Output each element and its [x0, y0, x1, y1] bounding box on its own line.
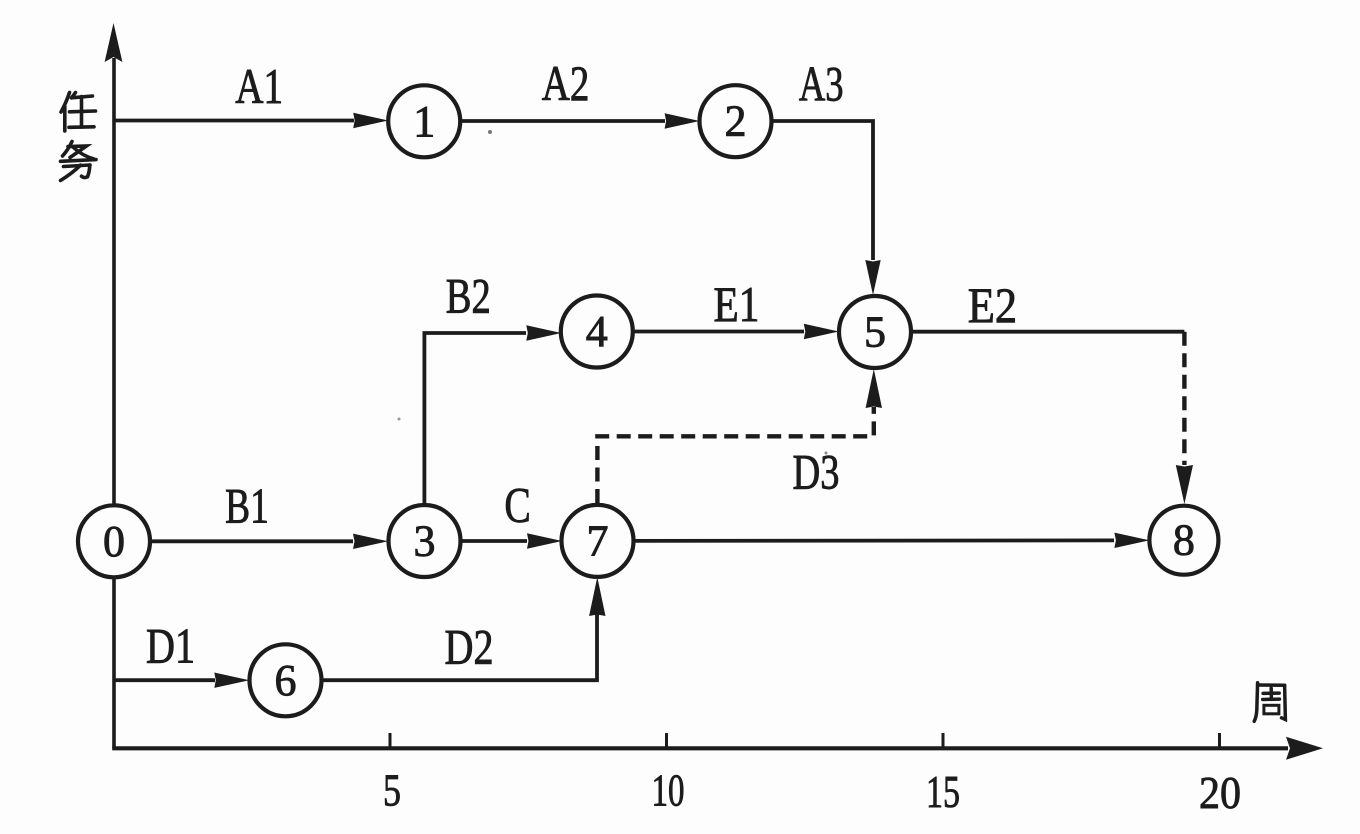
- svg-text:C: C: [504, 477, 530, 533]
- node 6: [250, 644, 322, 716]
- svg-text:10: 10: [652, 765, 685, 816]
- node 1: [388, 85, 460, 157]
- edge 7-8 wire: [633, 539, 1114, 543]
- edge E2 wire: [911, 330, 1184, 334]
- svg-text:4: 4: [586, 307, 608, 356]
- y-axis label char ren: [61, 93, 96, 132]
- node 4: [561, 296, 633, 368]
- edge E1 wire: [632, 330, 804, 334]
- svg-text:20: 20: [1199, 767, 1241, 818]
- node 3: [389, 505, 461, 577]
- svg-text:0: 0: [103, 517, 125, 566]
- speck: [488, 130, 492, 134]
- edge D1 wire: [114, 678, 215, 682]
- svg-text:5: 5: [864, 308, 886, 357]
- svg-text:8: 8: [1173, 516, 1195, 565]
- node 7: [562, 505, 634, 577]
- svg-text:B2: B2: [446, 268, 491, 324]
- edge D3 dashed wire: [597, 407, 873, 503]
- node 2: [700, 85, 772, 157]
- node 5: [839, 296, 911, 368]
- svg-text:A2: A2: [542, 55, 590, 111]
- x-axis: [112, 746, 1288, 750]
- svg-text:7: 7: [587, 516, 609, 565]
- edge C wire: [461, 539, 527, 543]
- svg-text:B1: B1: [225, 478, 269, 534]
- node 8: [1149, 506, 1218, 575]
- svg-text:2: 2: [725, 97, 747, 146]
- edge A1 wire: [114, 119, 354, 123]
- svg-text:3: 3: [414, 517, 436, 566]
- x-axis label char zhou: [1254, 683, 1285, 722]
- svg-text:5: 5: [383, 765, 401, 816]
- y-axis label char wu: [61, 142, 97, 181]
- svg-text:E2: E2: [968, 277, 1017, 333]
- edge B1 wire: [150, 539, 353, 543]
- node 0: [78, 505, 150, 577]
- edge D2 wire: [322, 614, 597, 680]
- svg-text:D2: D2: [445, 619, 494, 675]
- svg-text:A3: A3: [799, 56, 844, 112]
- edge B2 wire: [424, 333, 526, 505]
- edge A3 wire: [771, 121, 873, 260]
- svg-text:D1: D1: [146, 618, 195, 674]
- svg-text:1: 1: [413, 97, 435, 146]
- svg-text:A1: A1: [235, 58, 283, 114]
- svg-text:D3: D3: [793, 444, 840, 500]
- tick 5: [389, 733, 392, 748]
- tick 10: [665, 733, 668, 748]
- tick 20: [1218, 733, 1221, 748]
- edge A2 wire: [460, 119, 665, 123]
- svg-text:E1: E1: [714, 276, 760, 332]
- y-axis: [112, 58, 116, 748]
- svg-text:6: 6: [275, 656, 297, 705]
- tick 15: [942, 733, 945, 748]
- edge E2 dashed drop: [1182, 332, 1186, 465]
- svg-text:15: 15: [926, 766, 960, 817]
